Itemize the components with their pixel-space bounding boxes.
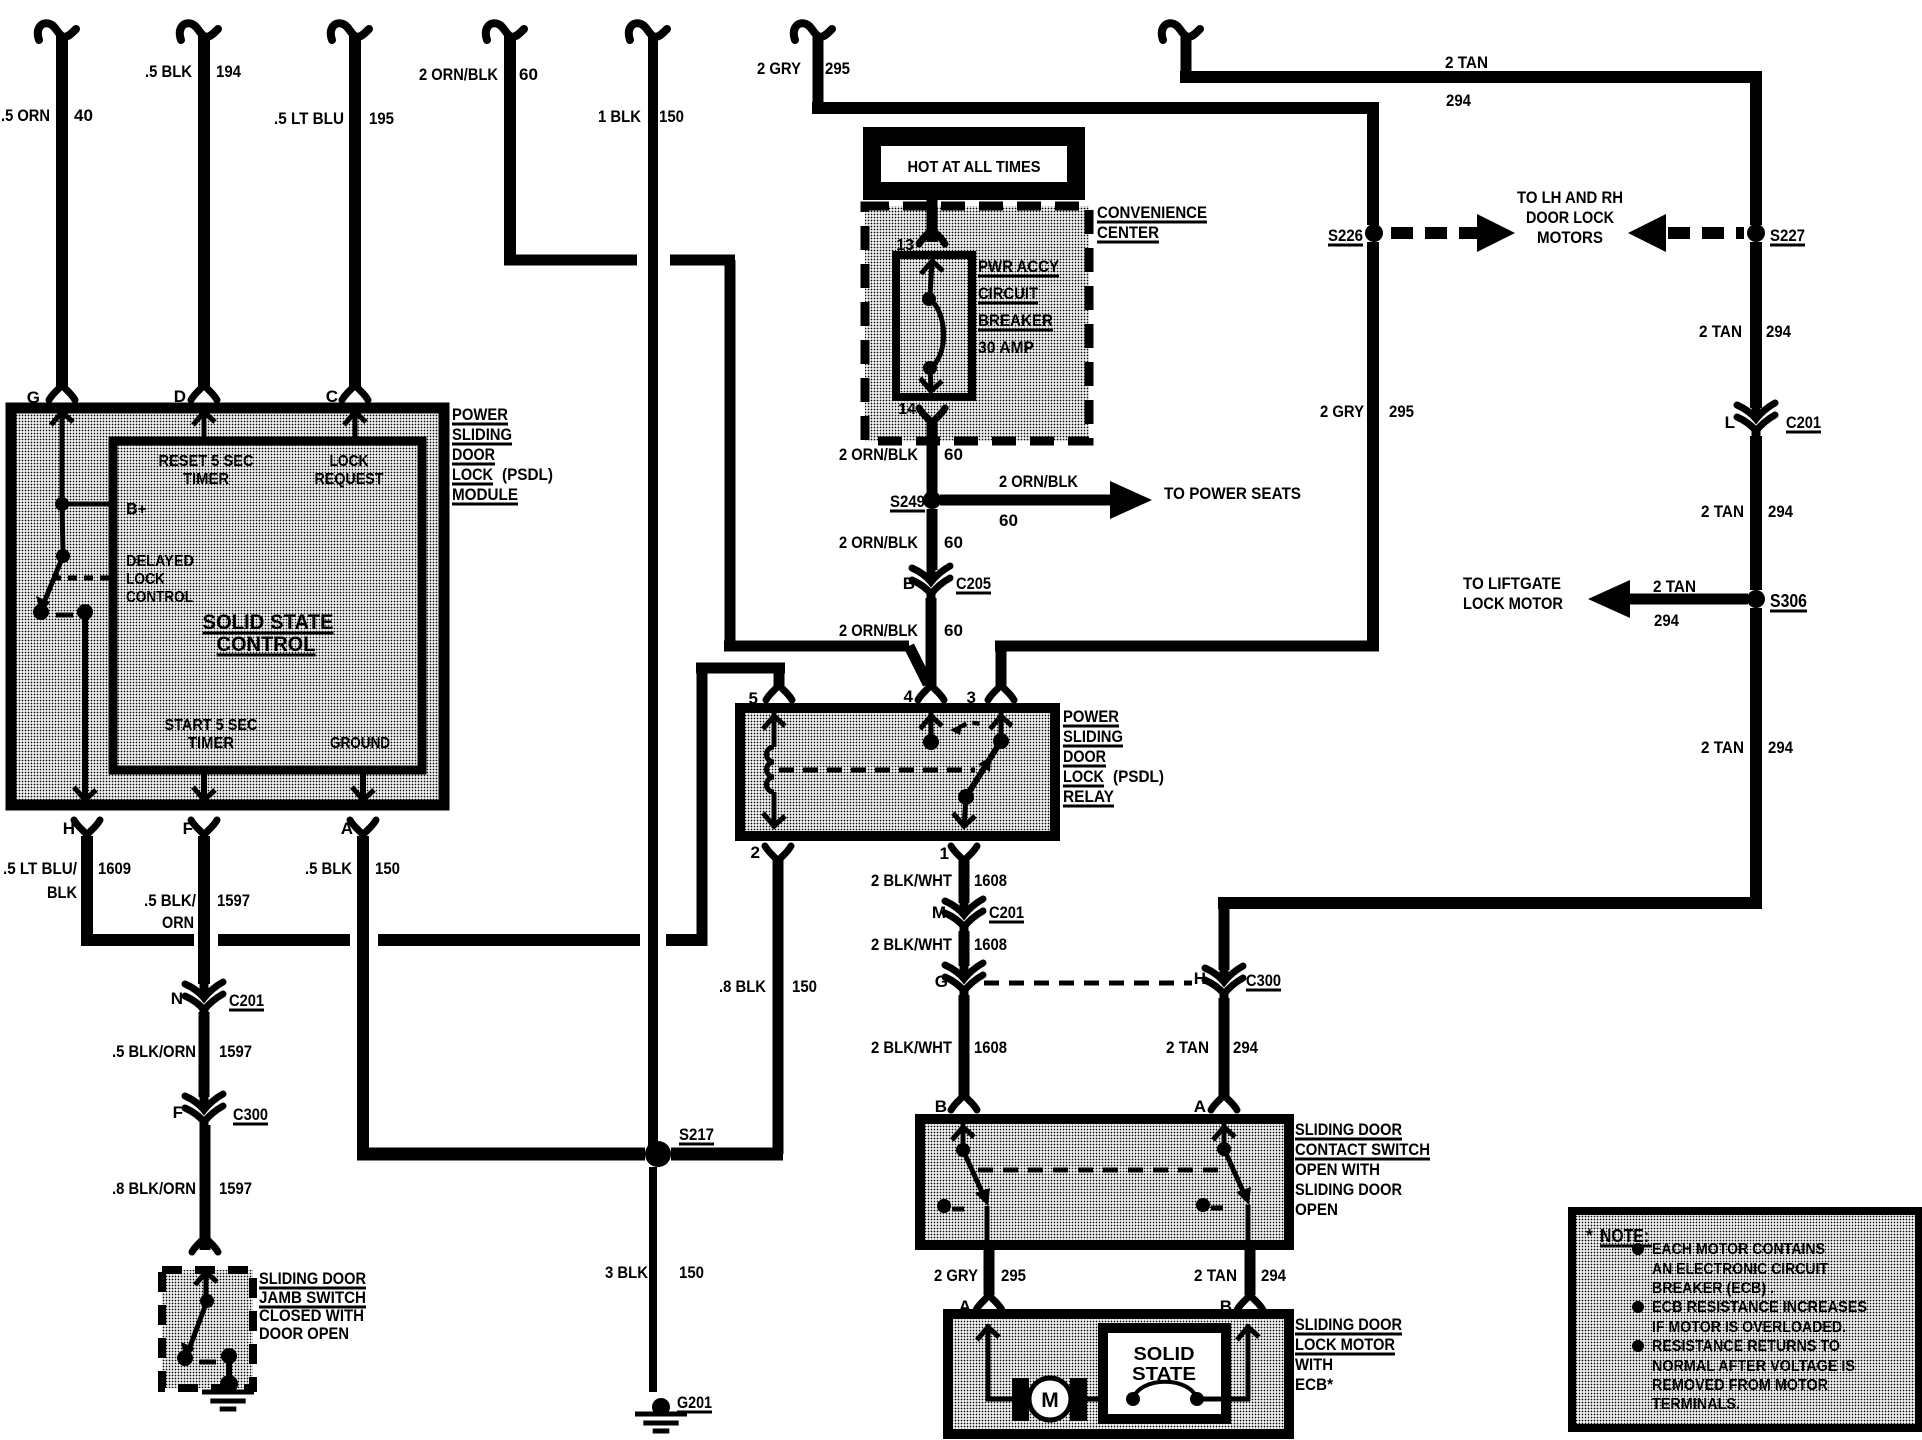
svg-text:2 ORN/BLK: 2 ORN/BLK bbox=[839, 533, 919, 552]
svg-text:2 GRY: 2 GRY bbox=[934, 1266, 979, 1285]
svg-text:1608: 1608 bbox=[974, 1038, 1007, 1057]
sliding door jamb switch box (dashed) bbox=[162, 1270, 253, 1388]
HOT AT ALL TIMES box bbox=[863, 127, 1085, 200]
relay interior: coil from pin 5 to pin 2 bbox=[763, 716, 785, 729]
svg-text:NORMAL AFTER VOLTAGE IS: NORMAL AFTER VOLTAGE IS bbox=[1652, 1358, 1855, 1375]
svg-text:NOTE:: NOTE: bbox=[1600, 1226, 1649, 1246]
svg-text:TO POWER SEATS: TO POWER SEATS bbox=[1164, 484, 1301, 503]
svg-text:294: 294 bbox=[1261, 1266, 1286, 1285]
splice S306 with arrow TO LIFTGATE LOCK MOTOR bbox=[1747, 590, 1765, 608]
svg-text:RELAY: RELAY bbox=[1063, 787, 1115, 806]
svg-text:WITH: WITH bbox=[1295, 1355, 1333, 1374]
svg-text:B: B bbox=[935, 1097, 947, 1116]
jamb switch ground symbol bbox=[202, 1390, 254, 1395]
motor M with brushes bbox=[1012, 1378, 1029, 1421]
module interior: wire from contact down to pin H bbox=[82, 612, 88, 805]
wire .5 LT BLU/BLK 1609 from pin H down and right (bus to relay pin 5) bbox=[81, 836, 93, 940]
svg-text:TIMER: TIMER bbox=[183, 471, 229, 488]
svg-text:2 ORN/BLK: 2 ORN/BLK bbox=[839, 445, 919, 464]
wire 1 BLK 150 (straight down to S217) bbox=[629, 23, 667, 40]
splice S227 with dashed arrow bbox=[1747, 224, 1765, 242]
svg-text:F: F bbox=[173, 1103, 183, 1122]
svg-text:60: 60 bbox=[944, 621, 963, 640]
svg-text:DOOR: DOOR bbox=[1063, 747, 1106, 766]
svg-text:BREAKER: BREAKER bbox=[978, 311, 1053, 330]
wire bus right of 1 BLK, corner up to relay pin 5 bbox=[666, 934, 702, 946]
svg-text:195: 195 bbox=[369, 109, 394, 128]
relay interior: dashed throw arrow between contacts bbox=[960, 723, 980, 727]
svg-text:294: 294 bbox=[1654, 611, 1679, 630]
svg-text:CONVENIENCE: CONVENIENCE bbox=[1097, 203, 1207, 222]
jamb switch interior: top contact arrow bbox=[195, 1272, 217, 1285]
svg-text:C201: C201 bbox=[989, 903, 1024, 922]
svg-text:60: 60 bbox=[519, 65, 538, 84]
svg-text:1: 1 bbox=[940, 844, 949, 863]
wire 2 TAN 294 from S306 down, across, to C300 pin H bbox=[1750, 608, 1762, 903]
relay: POWER SLIDING DOOR LOCK (PSDL) RELAY box bbox=[740, 708, 1055, 836]
svg-text:CONTACT SWITCH: CONTACT SWITCH bbox=[1295, 1140, 1430, 1159]
module interior: pin C entry arrow and wire to inner box bbox=[344, 412, 366, 425]
svg-text:1597: 1597 bbox=[219, 1042, 252, 1061]
jamb switch interior: wire to ground bbox=[226, 1356, 232, 1384]
svg-text:L: L bbox=[1725, 413, 1735, 432]
svg-text:POWER: POWER bbox=[1063, 707, 1119, 726]
wire 2 GRY 295 feed (curl above HOT box) bbox=[794, 23, 832, 40]
svg-text:POWER: POWER bbox=[452, 405, 508, 424]
svg-text:AN ELECTRONIC CIRCUIT: AN ELECTRONIC CIRCUIT bbox=[1652, 1261, 1828, 1278]
svg-text:(PSDL): (PSDL) bbox=[502, 465, 553, 484]
module interior: pin D entry arrow and wire to inner box bbox=[193, 412, 215, 425]
svg-text:LOCK: LOCK bbox=[126, 571, 165, 588]
svg-text:2 ORN/BLK: 2 ORN/BLK bbox=[999, 472, 1079, 491]
svg-text:.8 BLK/ORN: .8 BLK/ORN bbox=[112, 1179, 196, 1198]
wire .5 BLK/ORN 1597 from pin F down to C201 bbox=[198, 836, 210, 984]
svg-text:LOCK MOTOR: LOCK MOTOR bbox=[1295, 1335, 1395, 1354]
wire 2 ORN/BLK 60 from breaker to S249 bbox=[927, 420, 938, 500]
wire 2 GRY 295 from S226 down to relay pin 3 bbox=[1367, 242, 1379, 646]
svg-text:DELAYED: DELAYED bbox=[126, 553, 194, 570]
wire relay pin 5 drop bbox=[774, 668, 785, 690]
svg-text:.5 LT BLU/: .5 LT BLU/ bbox=[3, 859, 77, 878]
motor interior: pin B lead bbox=[1197, 1397, 1250, 1402]
svg-text:C: C bbox=[326, 387, 338, 406]
svg-text:ECB RESISTANCE INCREASES: ECB RESISTANCE INCREASES bbox=[1652, 1299, 1867, 1316]
svg-text:CENTER: CENTER bbox=[1097, 223, 1159, 242]
svg-text:CONTROL: CONTROL bbox=[126, 589, 193, 606]
contact switch interior: left pole (pin B) bbox=[952, 1127, 974, 1140]
svg-text:ORN: ORN bbox=[162, 913, 194, 932]
wire 2 ORN/BLK 60 from C205 to relay pin 4 bbox=[926, 598, 937, 690]
svg-text:2 BLK/WHT: 2 BLK/WHT bbox=[871, 935, 953, 954]
svg-text:294: 294 bbox=[1233, 1038, 1258, 1057]
module interior: delayed-lock switch pivot bbox=[56, 549, 70, 563]
svg-text:S249: S249 bbox=[890, 492, 925, 511]
svg-text:DOOR: DOOR bbox=[452, 445, 495, 464]
svg-text:40: 40 bbox=[74, 106, 93, 125]
module inner box SOLID STATE CONTROL bbox=[113, 441, 422, 770]
wire .5 BLK/ORN 1597 from C201 to C300 bbox=[199, 1012, 210, 1097]
relay interior: pin 4 fixed contact bbox=[920, 716, 942, 729]
svg-text:1608: 1608 bbox=[974, 935, 1007, 954]
module interior: pin G entry arrow bbox=[51, 412, 73, 425]
splice S217 bbox=[645, 1141, 671, 1167]
svg-text:SLIDING DOOR: SLIDING DOOR bbox=[1295, 1180, 1402, 1199]
svg-text:MOTORS: MOTORS bbox=[1537, 228, 1603, 247]
svg-text:CIRCUIT: CIRCUIT bbox=[978, 284, 1039, 303]
wire 2 TAN 294 from S227 down to C201 pin L bbox=[1750, 242, 1762, 408]
svg-text:SLIDING: SLIDING bbox=[452, 425, 512, 444]
wire 2 TAN 294 feed (top right curl) bbox=[1162, 23, 1200, 40]
svg-text:TERMINALS.: TERMINALS. bbox=[1652, 1396, 1740, 1413]
wire .5 LT BLU 195 (feed to module pin C) bbox=[331, 23, 369, 40]
svg-text:C300: C300 bbox=[233, 1105, 268, 1124]
svg-text:1609: 1609 bbox=[98, 859, 131, 878]
svg-text:.5 BLK: .5 BLK bbox=[145, 62, 193, 81]
svg-text:EACH MOTOR CONTAINS: EACH MOTOR CONTAINS bbox=[1652, 1241, 1825, 1258]
wire bus continues between A and 1 BLK wires bbox=[378, 934, 640, 946]
svg-text:3 BLK: 3 BLK bbox=[605, 1263, 649, 1282]
svg-text:150: 150 bbox=[679, 1263, 704, 1282]
svg-text:SOLID STATE: SOLID STATE bbox=[203, 611, 334, 634]
motor interior: wire brush to ECB bbox=[1087, 1397, 1133, 1402]
svg-text:S217: S217 bbox=[679, 1125, 714, 1144]
svg-text:2 GRY: 2 GRY bbox=[757, 59, 802, 78]
sliding door contact switch box bbox=[920, 1119, 1289, 1245]
relay interior: pin 3 contact and movable arm bbox=[990, 716, 1012, 729]
wire 2 BLK/WHT 1608 from C300 to contact switch pin B bbox=[959, 995, 970, 1100]
svg-text:N: N bbox=[171, 989, 183, 1008]
sliding door lock motor box bbox=[948, 1314, 1289, 1434]
svg-text:LOCK: LOCK bbox=[1063, 767, 1105, 786]
svg-text:G: G bbox=[27, 388, 40, 407]
ECB element (arc with contacts) bbox=[1126, 1392, 1140, 1406]
svg-text:1608: 1608 bbox=[974, 871, 1007, 890]
svg-text:2 TAN: 2 TAN bbox=[1701, 502, 1744, 521]
wire .8 BLK/ORN 1597 from C300 down to jamb switch bbox=[200, 1125, 211, 1250]
svg-text:.5 BLK: .5 BLK bbox=[305, 859, 353, 878]
svg-text:S227: S227 bbox=[1770, 226, 1805, 245]
module interior: wire inner box to pin A (GROUND) bbox=[360, 770, 366, 805]
svg-text:1597: 1597 bbox=[217, 891, 250, 910]
svg-text:2 TAN: 2 TAN bbox=[1701, 738, 1744, 757]
wire 2 TAN 294 from C201 to S306 bbox=[1750, 436, 1762, 590]
wire 2 TAN 294 from contact switch to motor pin B bbox=[1245, 1245, 1256, 1295]
jamb switch connector bbox=[192, 1237, 218, 1252]
svg-text:TO LIFTGATE: TO LIFTGATE bbox=[1463, 574, 1561, 593]
svg-text:60: 60 bbox=[944, 445, 963, 464]
wire: 2 ORN/BLK feed joins pin 4 (diagonal) bbox=[724, 641, 909, 652]
module interior: lower contact of switch and dash bbox=[33, 604, 49, 620]
svg-text:2 ORN/BLK: 2 ORN/BLK bbox=[419, 65, 499, 84]
svg-text:D: D bbox=[174, 387, 186, 406]
svg-text:2 BLK/WHT: 2 BLK/WHT bbox=[871, 1038, 953, 1057]
svg-text:294: 294 bbox=[1768, 502, 1793, 521]
svg-text:150: 150 bbox=[792, 977, 817, 996]
wire 2 TAN 294 from C300 to contact switch pin A bbox=[1219, 998, 1230, 1100]
svg-text:REMOVED FROM MOTOR: REMOVED FROM MOTOR bbox=[1652, 1377, 1828, 1394]
svg-text:S306: S306 bbox=[1770, 591, 1807, 611]
svg-text:150: 150 bbox=[375, 859, 400, 878]
jamb switch interior: pivot dot and arm bbox=[200, 1294, 214, 1308]
svg-text:RESISTANCE RETURNS TO: RESISTANCE RETURNS TO bbox=[1652, 1338, 1840, 1355]
svg-text:S226: S226 bbox=[1328, 226, 1363, 245]
svg-text:.5 BLK/ORN: .5 BLK/ORN bbox=[112, 1042, 196, 1061]
svg-text:295: 295 bbox=[1389, 402, 1414, 421]
svg-text:C205: C205 bbox=[956, 574, 991, 593]
svg-text:30 AMP: 30 AMP bbox=[978, 338, 1034, 357]
svg-text:2 TAN: 2 TAN bbox=[1653, 577, 1696, 596]
svg-text:ECB*: ECB* bbox=[1295, 1375, 1333, 1394]
svg-text:B+: B+ bbox=[126, 501, 147, 518]
svg-text:60: 60 bbox=[999, 511, 1018, 530]
wire 2 GRY 295 from contact switch to motor pin A bbox=[984, 1245, 995, 1295]
svg-text:LOCK: LOCK bbox=[330, 453, 369, 470]
svg-text:295: 295 bbox=[1001, 1266, 1026, 1285]
svg-text:G201: G201 bbox=[677, 1393, 712, 1412]
svg-text:SLIDING: SLIDING bbox=[1063, 727, 1123, 746]
jamb switch interior: lower contacts bbox=[177, 1350, 193, 1366]
svg-text:294: 294 bbox=[1766, 322, 1791, 341]
svg-text:C201: C201 bbox=[229, 991, 264, 1010]
svg-text:SLIDING DOOR: SLIDING DOOR bbox=[259, 1269, 366, 1288]
svg-text:2 TAN: 2 TAN bbox=[1194, 1266, 1237, 1285]
wire S217 bus to relay pin 2 riser bbox=[671, 1148, 783, 1161]
svg-text:A: A bbox=[1194, 1097, 1206, 1116]
wire 2 ORN/BLK 60 feed (top curl, runs right then down to PSDL relay pin 4) bbox=[486, 23, 524, 40]
svg-text:2: 2 bbox=[751, 843, 760, 862]
svg-text:.8 BLK: .8 BLK bbox=[719, 977, 767, 996]
svg-text:IF MOTOR IS OVERLOADED.: IF MOTOR IS OVERLOADED. bbox=[1652, 1319, 1846, 1336]
svg-text:LOCK: LOCK bbox=[452, 465, 494, 484]
wire .5 ORN 40 (circuit feed to module pin G) bbox=[38, 23, 76, 40]
dashed mechanical link between C300 pins G and H bbox=[984, 981, 1192, 986]
contact switch interior: dashed link bbox=[978, 1168, 1218, 1173]
wire 2 BLK/WHT 1608 from C201 to C300 pin G bbox=[959, 931, 970, 966]
svg-text:DOOR LOCK: DOOR LOCK bbox=[1526, 208, 1615, 227]
svg-text:2 GRY: 2 GRY bbox=[1320, 402, 1365, 421]
module: POWER SLIDING DOOR LOCK (PSDL) MODULE box bbox=[11, 408, 444, 805]
svg-text:CONTROL: CONTROL bbox=[217, 633, 316, 656]
svg-text:.5 BLK/: .5 BLK/ bbox=[144, 891, 196, 910]
relay interior: dashed actuation link from coil to arm bbox=[779, 768, 975, 773]
svg-text:DOOR OPEN: DOOR OPEN bbox=[259, 1324, 349, 1343]
SOLID STATE ECB box bbox=[1103, 1328, 1226, 1419]
breaker interior: entry arrow, contacts and thermal arc bbox=[921, 261, 943, 274]
module interior: B+ branch node bbox=[55, 497, 69, 511]
svg-text:150: 150 bbox=[659, 107, 684, 126]
wire .5 BLK 150 from pin A down to S217 bus bbox=[357, 836, 369, 1154]
svg-text:C201: C201 bbox=[1786, 413, 1821, 432]
motor interior: pin A lead bbox=[977, 1327, 999, 1340]
svg-text:CLOSED WITH: CLOSED WITH bbox=[259, 1306, 364, 1325]
svg-text:TIMER: TIMER bbox=[188, 735, 234, 752]
svg-text:BLK: BLK bbox=[47, 883, 78, 902]
svg-text:SOLID: SOLID bbox=[1134, 1344, 1195, 1364]
svg-text:RESET 5 SEC: RESET 5 SEC bbox=[159, 453, 254, 470]
svg-text:C300: C300 bbox=[1246, 971, 1281, 990]
svg-text:*: * bbox=[1586, 1226, 1593, 1246]
module interior: wire B+ node down to switch pivot bbox=[62, 504, 63, 553]
svg-text:M: M bbox=[1041, 1389, 1059, 1412]
svg-text:OPEN: OPEN bbox=[1295, 1200, 1338, 1219]
svg-text:BREAKER (ECB) .: BREAKER (ECB) . bbox=[1652, 1280, 1774, 1297]
svg-text:REQUEST: REQUEST bbox=[315, 471, 384, 488]
svg-text:60: 60 bbox=[944, 533, 963, 552]
svg-text:GROUND: GROUND bbox=[330, 735, 390, 752]
svg-text:SLIDING DOOR: SLIDING DOOR bbox=[1295, 1315, 1402, 1334]
svg-text:HOT AT ALL TIMES: HOT AT ALL TIMES bbox=[908, 159, 1041, 176]
svg-text:JAMB SWITCH: JAMB SWITCH bbox=[259, 1288, 366, 1307]
note box bbox=[1572, 1211, 1919, 1428]
wire bus continues between F and A wires bbox=[218, 934, 350, 946]
wire 2 BLK/WHT 1608 from relay pin 1 to C201 pin M bbox=[959, 858, 970, 903]
svg-text:14: 14 bbox=[898, 401, 916, 418]
svg-text:MODULE: MODULE bbox=[452, 485, 518, 504]
svg-text:2 TAN: 2 TAN bbox=[1445, 53, 1488, 72]
svg-text:2 TAN: 2 TAN bbox=[1166, 1038, 1209, 1057]
svg-text:2 ORN/BLK: 2 ORN/BLK bbox=[839, 621, 919, 640]
svg-text:294: 294 bbox=[1768, 738, 1793, 757]
svg-text:1 BLK: 1 BLK bbox=[598, 107, 642, 126]
PWR ACCY circuit breaker 30 AMP box bbox=[896, 255, 972, 397]
svg-text:194: 194 bbox=[216, 62, 241, 81]
svg-text:TO LH AND RH: TO LH AND RH bbox=[1517, 188, 1623, 207]
wire feed from HOT box into breaker pin 13 bbox=[927, 200, 938, 242]
contact switch interior: right pole (pin A) bbox=[1213, 1127, 1235, 1140]
svg-text:294: 294 bbox=[1446, 91, 1471, 110]
svg-text:(PSDL): (PSDL) bbox=[1113, 767, 1164, 786]
svg-text:295: 295 bbox=[825, 59, 850, 78]
svg-text:.5 LT BLU: .5 LT BLU bbox=[274, 109, 344, 128]
wire .5 BLK 194 (feed to module pin D) bbox=[180, 23, 218, 40]
wire 3 BLK 150 from S217 down to G201 bbox=[649, 1167, 657, 1392]
svg-text:OPEN WITH: OPEN WITH bbox=[1295, 1160, 1380, 1179]
module interior: delayed-lock switch arm (to H contact) bbox=[43, 556, 63, 605]
svg-text:PWR ACCY: PWR ACCY bbox=[978, 257, 1060, 276]
svg-text:START 5 SEC: START 5 SEC bbox=[165, 717, 258, 734]
svg-text:2 BLK/WHT: 2 BLK/WHT bbox=[871, 871, 953, 890]
svg-text:1597: 1597 bbox=[219, 1179, 252, 1198]
module interior: wire inner box to pin F (START 5 SEC TIMER) bbox=[201, 770, 207, 805]
ground G201 bbox=[652, 1398, 670, 1416]
convenience center dashed box bbox=[865, 206, 1089, 441]
svg-text:SLIDING DOOR: SLIDING DOOR bbox=[1295, 1120, 1402, 1139]
svg-text:2 TAN: 2 TAN bbox=[1699, 322, 1742, 341]
module interior: dashed control link to solid state (DELAYED LOCK CONTROL) bbox=[52, 576, 113, 581]
svg-text:.5 ORN: .5 ORN bbox=[1, 106, 50, 125]
wire 2 ORN/BLK 60 from S249 to C205 bbox=[927, 509, 938, 570]
svg-text:LOCK MOTOR: LOCK MOTOR bbox=[1463, 594, 1563, 613]
